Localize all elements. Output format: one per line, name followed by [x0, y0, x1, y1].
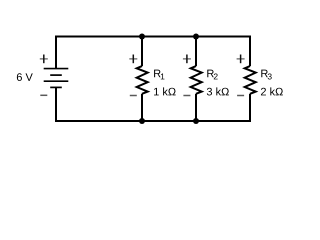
battery B1 plates [44, 69, 69, 88]
node junction dot bottom R1 [139, 118, 145, 124]
resistor R2 value label 3 kOhm [207, 87, 229, 95]
node junction dot top R2 [193, 34, 199, 40]
resistor R3 zigzag [245, 66, 256, 94]
wire R3 top lead (right rail upper) [249, 36, 251, 67]
resistor R3 name label [261, 70, 271, 80]
node junction dot bottom R2 [193, 118, 199, 124]
wire R2 top lead [195, 37, 197, 67]
wire battery bottom lead [55, 88, 57, 123]
wire bottom rail [56, 120, 250, 122]
resistor R3 plus sign [237, 55, 245, 64]
resistor R2 name label [207, 70, 217, 80]
resistor R1 plus sign [129, 55, 137, 64]
wire R3 bottom lead (right rail lower) [249, 94, 251, 122]
battery minus sign [40, 94, 47, 96]
resistor R2 zigzag [191, 66, 202, 94]
battery value label 6 V [17, 73, 33, 81]
wire top rail [56, 36, 250, 38]
resistor R3 minus sign [237, 95, 244, 97]
wire R1 bottom lead [141, 94, 143, 121]
battery plus sign [40, 55, 48, 64]
resistor R1 value label 1 kOhm [154, 87, 176, 95]
wire battery top lead [55, 36, 57, 69]
wire R1 top lead [141, 37, 143, 67]
wire R2 bottom lead [195, 94, 197, 121]
resistor R2 plus sign [183, 55, 191, 64]
resistor R1 name label [154, 70, 164, 80]
resistor R1 zigzag [137, 66, 148, 94]
node junction dot top R1 [139, 34, 145, 40]
resistor R1 minus sign [130, 95, 137, 97]
resistor R2 minus sign [183, 95, 190, 97]
resistor R3 value label 2 kOhm [261, 87, 283, 95]
